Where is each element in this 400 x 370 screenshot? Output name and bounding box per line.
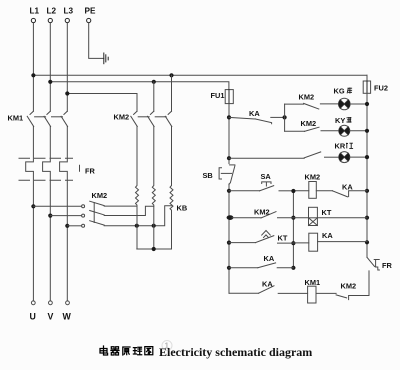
coil KA [293, 233, 367, 251]
fuse FU1 [225, 90, 233, 104]
pushbutton SB stop [219, 165, 235, 185]
lamp KY yellow [339, 125, 367, 136]
contactor KM1 main contacts [27, 111, 67, 126]
contact KM2 aux row 2 [50, 206, 153, 217]
svg-text:V: V [48, 312, 54, 322]
wire lamp branch vertical [284, 104, 286, 131]
svg-text:KA: KA [264, 254, 275, 263]
node phase tap dots [31, 204, 69, 228]
lamp colour glyph green [347, 88, 352, 94]
wire left control rail lower [228, 184, 230, 293]
resistor KB element 3 [170, 127, 173, 250]
wire bus L1 [33, 74, 367, 76]
contact KM2 lamp row 2 [285, 127, 339, 131]
wire PE to ground [89, 23, 104, 59]
contact KM2 interlock NC [336, 295, 369, 300]
svg-text:FU2: FU2 [374, 84, 388, 93]
node U terminal [31, 301, 35, 305]
thermal relay FR heaters [19, 127, 80, 301]
resistor KB element 1 [136, 127, 139, 250]
lamp KR red [339, 152, 367, 163]
lamp colour glyph yellow [347, 117, 352, 123]
svg-text:KA: KA [262, 279, 273, 288]
wire L2 phase drop [49, 23, 51, 112]
svg-text:W: W [63, 312, 72, 322]
wire KB star bus [137, 248, 172, 250]
svg-text:FU1: FU1 [211, 91, 225, 100]
svg-text:L1: L1 [30, 6, 40, 15]
ground [104, 53, 108, 64]
coil KM2 [293, 182, 332, 199]
wire bus L3 [67, 94, 137, 112]
wire L1 phase drop [32, 23, 34, 112]
svg-text:Electricity schematic diagram: Electricity schematic diagram [159, 345, 312, 359]
wire KM2 aux linkage [93, 203, 95, 223]
node mid branch junctions [291, 189, 295, 270]
wire KM2 phase b drop [153, 82, 155, 111]
node rail junctions [227, 115, 234, 270]
node right rail junctions [365, 102, 369, 245]
thermal contact FR NC [367, 257, 379, 270]
lamp colour glyph red [346, 143, 353, 149]
svg-text:1: 1 [165, 342, 170, 351]
svg-text:KY: KY [335, 116, 345, 125]
watermark faint [162, 341, 172, 351]
svg-text:KM2: KM2 [305, 172, 321, 181]
wire right rail lower [368, 271, 370, 296]
wire KM2 phase c drop [171, 75, 173, 111]
svg-text:SB: SB [203, 171, 213, 180]
svg-text:KA: KA [342, 182, 353, 191]
contact KM2 row B [232, 212, 293, 218]
wire right rail upper [366, 93, 368, 257]
node KB star point [152, 247, 156, 251]
wire bus L2 [50, 82, 229, 90]
contact SA [229, 182, 293, 191]
svg-text:KT: KT [322, 208, 332, 217]
svg-text:KM2: KM2 [341, 282, 357, 291]
node PE terminal [87, 18, 91, 22]
coil KM1 [308, 286, 337, 303]
resistor KB element 2 [152, 127, 155, 250]
contact KM2 lamp row 1 [285, 103, 339, 109]
node W terminal [66, 301, 70, 305]
svg-text:KA: KA [249, 109, 260, 118]
caption chinese 电器原理图 [100, 346, 153, 355]
svg-text:KM1: KM1 [8, 114, 24, 123]
svg-text:SA: SA [261, 172, 272, 181]
node KB row3 junctions [135, 224, 156, 228]
timer coil KT [293, 207, 367, 225]
contact KM2 aux row 3 [67, 206, 171, 228]
svg-text:KB: KB [177, 204, 188, 213]
svg-text:KG: KG [334, 87, 345, 96]
svg-text:FR: FR [382, 261, 393, 270]
contact lamp row 3 [229, 152, 339, 158]
node L1 terminal [31, 18, 35, 22]
svg-text:PE: PE [85, 6, 96, 15]
svg-text:KM2: KM2 [299, 92, 315, 101]
svg-text:KM2: KM2 [254, 208, 270, 217]
contact KA (top feed) [229, 117, 285, 123]
contact KA seal row A [333, 191, 368, 197]
node L3 terminal [65, 18, 69, 22]
wire mid branch vertical [292, 191, 294, 268]
fuse FU2 [363, 75, 370, 93]
wire left control rail upper [228, 104, 230, 164]
lamp KG green [339, 98, 368, 110]
svg-text:L2: L2 [47, 6, 57, 15]
svg-text:KT: KT [278, 234, 288, 243]
wire L3 phase drop [66, 23, 68, 112]
svg-text:KM1: KM1 [305, 278, 321, 287]
contact KT delayed row C [229, 231, 293, 244]
svg-text:KM2: KM2 [114, 112, 130, 121]
svg-text:KM2: KM2 [301, 119, 317, 128]
svg-text:FR: FR [85, 167, 96, 176]
node lamp branch junction [283, 115, 287, 119]
svg-text:KA: KA [322, 231, 333, 240]
contact KA self-hold row D [229, 263, 293, 268]
svg-text:L3: L3 [64, 6, 74, 15]
node L2 terminal [48, 18, 52, 22]
svg-text:KM2: KM2 [92, 191, 108, 200]
node V terminal [49, 301, 53, 305]
contact KM2 aux row 1 [33, 201, 136, 208]
node bus junctions [31, 73, 173, 95]
contactor KM2 main contacts [131, 111, 172, 126]
svg-text:KR: KR [335, 142, 346, 151]
contact KA row E [229, 286, 308, 294]
svg-text:U: U [30, 312, 36, 322]
